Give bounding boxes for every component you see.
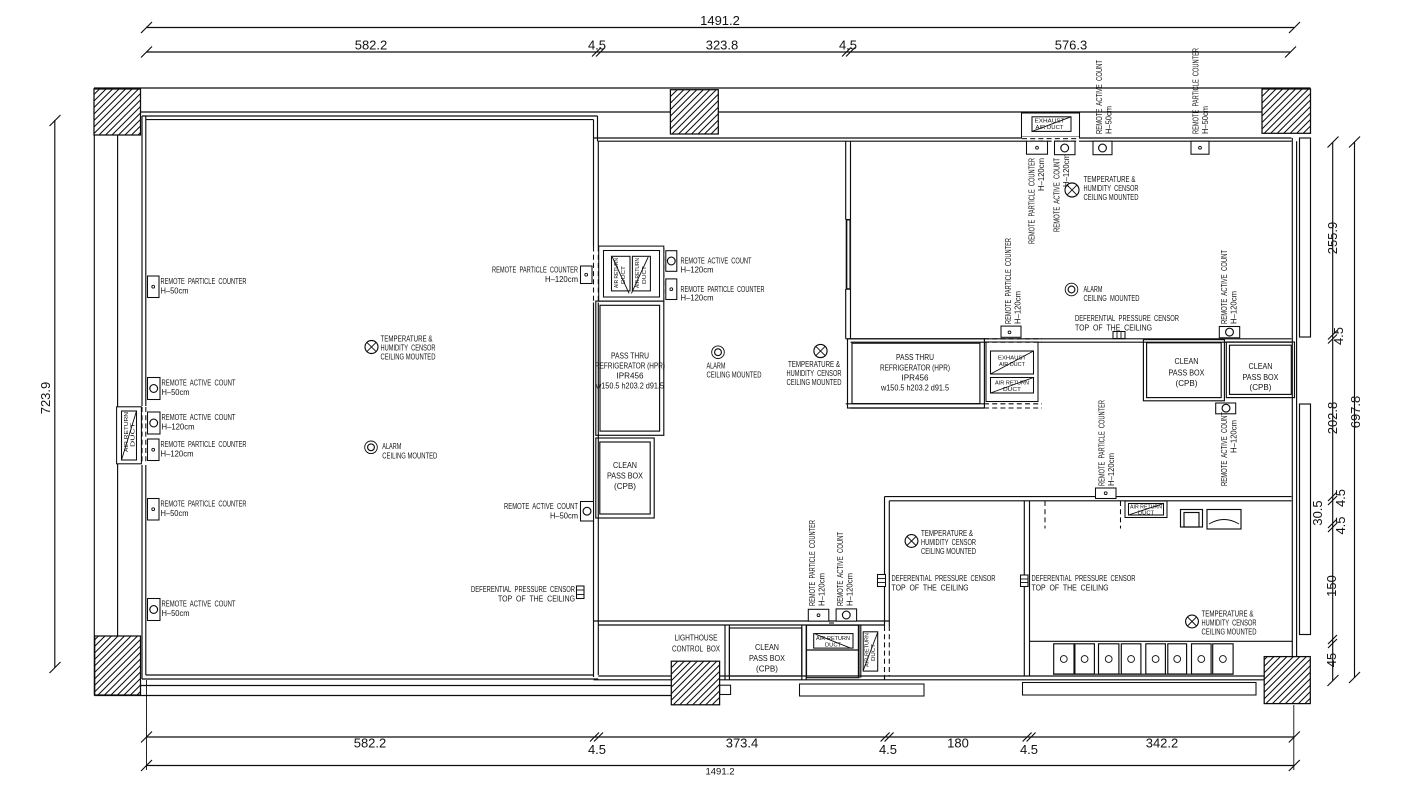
column top-left: [94, 89, 141, 135]
left room sensor 2: remote active count H-50cm: [148, 378, 237, 400]
bottom rooms divider wall x=804: [801, 625, 803, 680]
svg-text:LIGHTHOUSE: LIGHTHOUSE: [675, 633, 718, 643]
left room temperature sensor: [365, 334, 436, 362]
left room sensor 5: remote particle counter H-50cm: [148, 499, 247, 521]
svg-text:1491.2: 1491.2: [700, 13, 740, 28]
svg-text:REMOTE PARTICLE COUNTER: REMOTE PARTICLE COUNTER: [1097, 400, 1107, 486]
air return duct on left wall: [117, 406, 148, 465]
svg-text:4.5: 4.5: [588, 38, 606, 53]
svg-text:582.2: 582.2: [354, 736, 387, 751]
svg-text:576.3: 576.3: [1055, 38, 1088, 53]
right wall pilaster strip B: [1300, 404, 1311, 635]
svg-text:H–120cm: H–120cm: [1013, 291, 1023, 324]
svg-text:4.5: 4.5: [1331, 327, 1346, 345]
svg-text:REMOTE PARTICLE COUNTER: REMOTE PARTICLE COUNTER: [1003, 238, 1013, 324]
svg-text:w150.5 h203.2 d91.5: w150.5 h203.2 d91.5: [595, 381, 664, 391]
svg-text:H–120cm: H–120cm: [681, 293, 714, 303]
svg-text:CEILING MOUNTED: CEILING MOUNTED: [1202, 627, 1257, 637]
svg-text:(CPB): (CPB): [1176, 378, 1198, 388]
svg-text:PASS BOX: PASS BOX: [1169, 367, 1205, 377]
svg-text:H–120cm: H–120cm: [162, 422, 195, 432]
small box next to duct: [1181, 510, 1203, 528]
svg-text:CLEAN: CLEAN: [1249, 361, 1273, 371]
svg-text:4.5: 4.5: [1333, 489, 1348, 507]
top-right room alarm: [1065, 283, 1139, 303]
bottom air return duct box: [807, 625, 860, 678]
top wall sensor: active count H-50cm: [1093, 59, 1114, 154]
clean pass box CPB2: [1226, 342, 1294, 398]
svg-text:723.9: 723.9: [38, 382, 53, 415]
svg-text:H–50cm: H–50cm: [161, 508, 189, 518]
corridor duct-side particle counter H-120cm: [666, 279, 765, 303]
left wall inner line: [117, 112, 119, 686]
svg-text:REMOTE ACTIVE COUNT: REMOTE ACTIVE COUNT: [504, 501, 579, 511]
right section top double line: [594, 137, 1292, 139]
right dim line2 697.8: [1348, 137, 1363, 684]
svg-text:REMOTE PARTICLE COUNTER: REMOTE PARTICLE COUNTER: [492, 265, 578, 275]
left dim 723.9: [38, 115, 61, 673]
left room alarm: [365, 441, 438, 461]
bottom rotated air return duct: [858, 625, 877, 678]
corridor-left wall particle counter H-120cm: [492, 265, 592, 285]
svg-text:H–120cm: H–120cm: [545, 274, 578, 284]
svg-text:H–120cm: H–120cm: [845, 573, 855, 606]
right dim line1 255.9 / 4.5 / 202.8 / 30.5 / 150 / 45: [1310, 137, 1348, 687]
top-right room sensor: active count H-120cm: [1052, 141, 1076, 232]
svg-text:PASS THRU: PASS THRU: [896, 352, 934, 362]
svg-text:323.8: 323.8: [706, 38, 739, 53]
right refrigerator room bottom wall: [846, 403, 984, 405]
svg-text:CEILING MOUNTED: CEILING MOUNTED: [707, 370, 762, 380]
svg-text:DUCT: DUCT: [825, 643, 842, 649]
svg-text:IPR456: IPR456: [902, 373, 929, 383]
bottom-right rooms divider wall x=1027: [1023, 501, 1025, 676]
corridor air return duct box: [599, 246, 664, 301]
svg-text:(CPB): (CPB): [614, 481, 636, 491]
svg-text:PASS BOX: PASS BOX: [1243, 372, 1279, 382]
sensor below CPB1: active count H-120cm: [1216, 403, 1239, 486]
svg-text:DEFERENTIAL PRESSURE CENSOR: DEFERENTIAL PRESSURE CENSOR: [1075, 313, 1179, 323]
svg-text:EXHAUST: EXHAUST: [998, 356, 1027, 362]
svg-text:REFRIGERATOR (HPR): REFRIGERATOR (HPR): [595, 361, 665, 371]
svg-text:CLEAN: CLEAN: [1175, 356, 1199, 366]
svg-text:CEILING MOUNTED: CEILING MOUNTED: [921, 546, 976, 556]
corridor clean pass box: [596, 438, 654, 518]
svg-text:H–120cm: H–120cm: [1061, 154, 1071, 187]
corridor bottom wall y=620 double: [594, 620, 890, 622]
wall step at corridor top: [593, 120, 595, 138]
left wall outer line: [93, 88, 95, 696]
svg-text:REMOTE PARTICLE COUNTER: REMOTE PARTICLE COUNTER: [1191, 48, 1201, 134]
box with arc (sink): [1207, 510, 1241, 530]
svg-text:PASS BOX: PASS BOX: [607, 471, 643, 481]
svg-text:H–50cm: H–50cm: [162, 387, 190, 397]
column bottom-middle: [671, 661, 719, 705]
svg-text:150: 150: [1324, 575, 1339, 597]
top overall dim line 1491.2: [141, 13, 1300, 33]
top wall inner line: [94, 111, 1311, 113]
svg-text:CLEAN: CLEAN: [755, 642, 779, 652]
svg-text:w150.5 h203.2 d91.5: w150.5 h203.2 d91.5: [880, 383, 949, 393]
dashed door in wall below 625: [884, 626, 891, 675]
column bottom-right: [1264, 657, 1310, 704]
svg-text:(CPB): (CPB): [756, 664, 778, 674]
svg-text:REMOTE ACTIVE COUNT: REMOTE ACTIVE COUNT: [1052, 157, 1062, 232]
svg-text:H–120cm: H–120cm: [1106, 453, 1116, 486]
svg-text:H–50cm: H–50cm: [162, 608, 190, 618]
svg-text:4.5: 4.5: [839, 38, 857, 53]
bottom-right air return duct: [1045, 501, 1167, 529]
svg-text:CLEAN: CLEAN: [613, 460, 637, 470]
bottom rooms divider wall x=727: [724, 625, 726, 680]
bottom wall inner line: [94, 685, 671, 687]
svg-text:4.5: 4.5: [588, 742, 606, 757]
left room sensor 4: remote particle counter H-120cm: [148, 439, 247, 461]
svg-text:AIR RETURN: AIR RETURN: [635, 258, 641, 288]
svg-text:REMOTE PARTICLE COUNTER: REMOTE PARTICLE COUNTER: [807, 520, 817, 606]
bottom-right room deferential pressure censor: [1021, 573, 1136, 593]
svg-text:H–120cm: H–120cm: [1229, 291, 1239, 324]
corridor pass thru refrigerator: [595, 301, 665, 435]
svg-text:4.5: 4.5: [1020, 742, 1038, 757]
middle-bottom room temperature sensor: [905, 528, 976, 556]
svg-text:REMOTE ACTIVE COUNT: REMOTE ACTIVE COUNT: [162, 412, 237, 422]
column bottom-left: [95, 636, 141, 695]
svg-text:REMOTE ACTIVE COUNT: REMOTE ACTIVE COUNT: [835, 531, 845, 606]
svg-text:CEILING MOUNTED: CEILING MOUNTED: [381, 352, 436, 362]
svg-text:REMOTE ACTIVE COUNT: REMOTE ACTIVE COUNT: [1219, 249, 1229, 324]
svg-text:REMOTE ACTIVE COUNT: REMOTE ACTIVE COUNT: [162, 599, 237, 609]
svg-text:TOP OF THE CEILING: TOP OF THE CEILING: [1032, 583, 1109, 593]
bottom-right room temperature sensor: [1186, 609, 1257, 637]
svg-text:CONTROL BOX: CONTROL BOX: [672, 644, 720, 654]
svg-text:AIR DUCT: AIR DUCT: [1036, 125, 1065, 131]
svg-text:H–120cm: H–120cm: [161, 449, 194, 459]
svg-text:4.5: 4.5: [879, 742, 897, 757]
right pass thru refrigerator room: [848, 339, 985, 408]
left room wall double line: [141, 116, 143, 679]
bottom wall outer line: [94, 695, 671, 697]
svg-text:REMOTE PARTICLE COUNTER: REMOTE PARTICLE COUNTER: [161, 499, 247, 509]
svg-text:H–120cm: H–120cm: [817, 573, 827, 606]
top dim line row2 582.2 / 4.5 / 323.8 / 4.5 / 576.3: [141, 38, 1296, 58]
svg-text:CEILING MOUNTED: CEILING MOUNTED: [1084, 192, 1139, 202]
svg-text:H–50cm: H–50cm: [1200, 106, 1210, 134]
corridor bottom active count: [835, 531, 857, 621]
svg-text:REFRIGERATOR (HPR): REFRIGERATOR (HPR): [880, 363, 950, 373]
left room sensor 6: remote active count H-50cm: [148, 599, 237, 621]
column top-right: [1262, 89, 1311, 133]
svg-text:582.2: 582.2: [355, 38, 388, 53]
svg-text:(CPB): (CPB): [1250, 382, 1272, 392]
svg-text:DUCT: DUCT: [1138, 511, 1155, 517]
svg-text:4.5: 4.5: [1333, 516, 1348, 534]
bottom clean pass box room: [729, 628, 801, 676]
bottom plinth stub right of column: [720, 685, 731, 694]
corridor alarm: [707, 346, 762, 380]
left room top double line: [142, 115, 598, 117]
svg-text:DUCT: DUCT: [642, 265, 648, 284]
top-right room sensor: particle counter H-120cm: [1027, 141, 1048, 244]
middle-bottom room deferential pressure censor: [878, 573, 996, 593]
svg-text:AIR RETURN: AIR RETURN: [614, 258, 620, 288]
door leaf in corridor right wall: [845, 220, 851, 289]
svg-text:REMOTE PARTICLE COUNTER: REMOTE PARTICLE COUNTER: [161, 439, 247, 449]
sensor above y=497 wall: particle counter H-120cm: [1096, 400, 1117, 499]
right room wall double: [1291, 138, 1293, 680]
svg-text:AIR RETURN: AIR RETURN: [124, 412, 130, 452]
svg-text:202.8: 202.8: [1325, 402, 1340, 435]
top-right room deferential pressure censor: [1075, 313, 1179, 339]
corridor-left deferential pressure censor: [471, 584, 584, 604]
top-right room bottom wall double: [846, 338, 1292, 340]
bottom plinth under middle rooms: [800, 684, 925, 696]
top wall sensor: particle counter H-50cm: [1191, 48, 1211, 154]
wall sensor: particle counter on y=338 wall: [1001, 238, 1023, 337]
svg-text:EXHAUST: EXHAUST: [1035, 119, 1066, 125]
svg-text:PASS THRU: PASS THRU: [611, 351, 649, 361]
bench row of 8 seats: [1030, 641, 1293, 674]
middle horizontal wall y=497 double: [885, 496, 1292, 498]
svg-text:342.2: 342.2: [1146, 736, 1179, 751]
middle-bottom room left wall double: [884, 497, 886, 680]
svg-text:REMOTE PARTICLE COUNTER: REMOTE PARTICLE COUNTER: [1027, 158, 1037, 244]
left room right wall double: [593, 138, 595, 677]
bottom extension lines: [146, 680, 148, 770]
svg-text:DEFERENTIAL PRESSURE CENSOR: DEFERENTIAL PRESSURE CENSOR: [1032, 573, 1136, 583]
svg-text:1491.2: 1491.2: [705, 767, 734, 778]
svg-text:DUCT: DUCT: [131, 422, 137, 447]
svg-text:DUCT: DUCT: [871, 643, 877, 661]
svg-text:TOP OF THE CEILING: TOP OF THE CEILING: [498, 594, 575, 604]
svg-text:PASS BOX: PASS BOX: [749, 653, 785, 663]
right refrigerator duct boxes: [984, 339, 1042, 408]
corridor temperature sensor: [787, 344, 842, 387]
clean pass box CPB1: [1143, 340, 1224, 401]
svg-text:CEILING MOUNTED: CEILING MOUNTED: [382, 451, 437, 461]
bottom plinth under right rooms: [1023, 683, 1257, 696]
right wall pilaster strip A: [1300, 138, 1311, 337]
bottom overall dim line 1491.2: [141, 760, 1300, 778]
svg-text:H–120cm: H–120cm: [1229, 420, 1239, 453]
corridor right wall double (top part): [845, 141, 847, 339]
svg-text:CEILING MOUNTED: CEILING MOUNTED: [1084, 293, 1140, 303]
svg-text:CEILING MOUNTED: CEILING MOUNTED: [787, 377, 842, 387]
corridor-left wall active count H-50cm: [504, 501, 594, 521]
svg-text:DEFERENTIAL PRESSURE CENSOR: DEFERENTIAL PRESSURE CENSOR: [471, 584, 575, 594]
svg-text:REMOTE ACTIVE COUNT: REMOTE ACTIVE COUNT: [1094, 59, 1104, 134]
svg-text:255.9: 255.9: [1325, 222, 1340, 255]
svg-text:REMOTE PARTICLE COUNTER: REMOTE PARTICLE COUNTER: [161, 276, 247, 286]
bottom room edge double line: [142, 678, 598, 680]
svg-text:697.8: 697.8: [1348, 396, 1363, 429]
svg-text:REMOTE ACTIVE COUNT: REMOTE ACTIVE COUNT: [162, 378, 237, 388]
right wall sensor: active count H-120cm: [1219, 249, 1240, 337]
svg-text:H–50cm: H–50cm: [1104, 106, 1114, 134]
svg-text:AIR-RETURN: AIR-RETURN: [865, 633, 871, 667]
svg-text:AIR-RETURN: AIR-RETURN: [816, 636, 850, 642]
svg-text:180: 180: [947, 736, 969, 751]
svg-text:AIR RETURN: AIR RETURN: [995, 381, 1029, 387]
corridor duct-side active count H-120cm: [666, 251, 752, 275]
column top-middle: [670, 90, 718, 134]
svg-text:H–120cm: H–120cm: [1036, 158, 1046, 191]
bottom dim line1 582.2 / 4.5 / 373.4 / 4.5 / 180 / 4.5 / 342.2: [141, 732, 1300, 758]
left room sensor 3: remote active count H-120cm: [148, 412, 237, 434]
svg-text:H–50cm: H–50cm: [550, 511, 578, 521]
top-right room temperature sensor: [1065, 174, 1139, 202]
svg-text:DEFERENTIAL PRESSURE CENSOR: DEFERENTIAL PRESSURE CENSOR: [892, 573, 996, 583]
svg-text:H–50cm: H–50cm: [161, 286, 189, 296]
door dashes on left-room right wall: [593, 247, 600, 303]
corridor bottom particle counter: [807, 520, 829, 621]
svg-text:45: 45: [1324, 653, 1339, 667]
top wall outer line: [94, 87, 1311, 89]
svg-text:30.5: 30.5: [1310, 500, 1325, 525]
left room sensor 1: remote particle counter H-50cm: [148, 276, 247, 298]
exhaust air duct in top wall: [1022, 113, 1080, 142]
svg-text:DUCT: DUCT: [1003, 387, 1022, 393]
svg-text:REMOTE ACTIVE COUNT: REMOTE ACTIVE COUNT: [1219, 411, 1229, 486]
svg-text:TOP OF THE CEILING: TOP OF THE CEILING: [892, 583, 969, 593]
svg-text:IPR456: IPR456: [617, 371, 644, 381]
svg-text:DUCT: DUCT: [621, 265, 627, 284]
svg-text:H–120cm: H–120cm: [681, 265, 714, 275]
svg-text:ALARM: ALARM: [382, 441, 401, 451]
svg-text:AIR DUCT: AIR DUCT: [999, 362, 1026, 368]
svg-text:373.4: 373.4: [726, 736, 759, 751]
